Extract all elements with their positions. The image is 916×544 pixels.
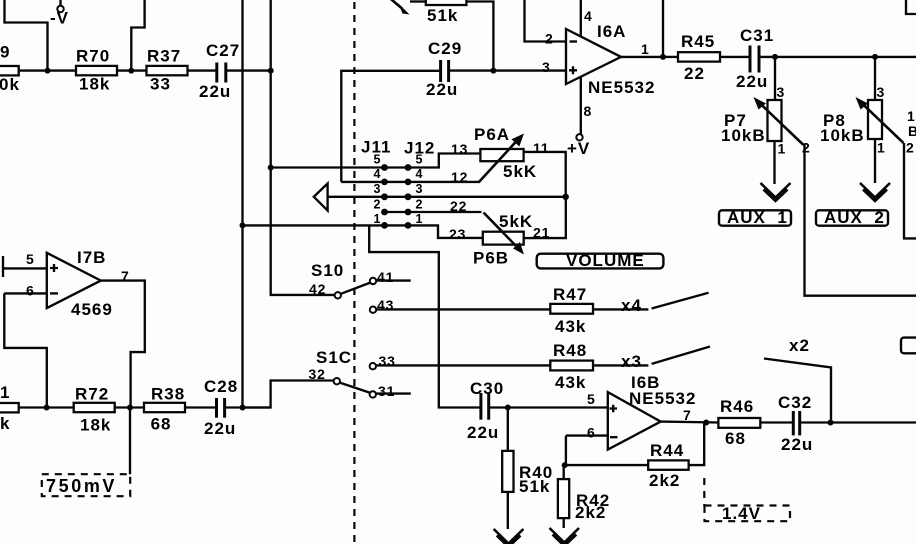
node P8 tap — [872, 54, 878, 60]
capacitor C31 22u — [736, 26, 774, 91]
wire P8 wiper drop — [904, 143, 916, 238]
node I7B feedback tap — [44, 405, 50, 411]
pin J12-2 — [405, 209, 412, 216]
op-amp I6B NE5532 — [608, 373, 697, 450]
capacitor C30 22u — [467, 379, 504, 442]
wire — [188, 69, 217, 71]
wire — [760, 421, 793, 423]
svg-text:+V: +V — [567, 139, 590, 158]
svg-text:22u: 22u — [736, 72, 768, 91]
node P7 tap — [772, 54, 778, 60]
svg-text:P6A: P6A — [474, 125, 510, 144]
wire J12-4 to P6A wiper (pin 12) — [408, 181, 479, 183]
wire feedback riser to top — [662, 0, 664, 57]
svg-text:18k: 18k — [80, 416, 111, 435]
wire C32 out to right edge — [800, 421, 916, 423]
wire — [117, 69, 147, 71]
wire branch row1 down to C30 net — [369, 225, 481, 407]
wire P8 bottom to AUX 2 — [874, 139, 876, 183]
svg-text:7: 7 — [121, 268, 130, 284]
box fragment top-right corner — [906, 0, 916, 14]
pin J11-2 — [381, 209, 388, 216]
svg-text:R48: R48 — [553, 341, 587, 360]
+V supply — [567, 134, 590, 158]
wire I7B feedback loop — [4, 293, 47, 407]
svg-text:22u: 22u — [467, 423, 499, 442]
svg-text:C27: C27 — [206, 41, 240, 60]
svg-text:C28: C28 — [204, 377, 238, 396]
resistor R44 2k2 — [648, 441, 688, 490]
arrow out R40 (cut at bottom) — [494, 529, 524, 544]
capacitor C29 22u — [426, 39, 462, 99]
measurement 1.4V — [704, 478, 790, 523]
capacitor C27 22u — [199, 41, 240, 101]
svg-text:3: 3 — [542, 59, 551, 75]
resistor R37 33 — [147, 47, 188, 94]
wire bottom rail — [19, 406, 74, 408]
arrow out P7 — [761, 183, 791, 201]
node I7B output tap — [127, 405, 133, 411]
contact 43 — [370, 307, 376, 313]
svg-text:6: 6 — [587, 425, 596, 441]
wire main out bus — [759, 56, 916, 58]
svg-text:C29: C29 — [428, 39, 462, 58]
node x2 tap — [828, 420, 834, 426]
svg-text:1: 1 — [374, 212, 381, 226]
svg-text:R46: R46 — [720, 397, 754, 416]
svg-text:3: 3 — [877, 84, 886, 100]
svg-text:2k2: 2k2 — [575, 503, 606, 522]
label VOLUME — [537, 251, 664, 270]
svg-text:5: 5 — [26, 251, 35, 267]
resistor R45 22 — [678, 32, 720, 83]
potentiometer P6A 5kK (volume) — [474, 125, 537, 183]
svg-text:43k: 43k — [555, 317, 586, 336]
svg-text:0k: 0k — [0, 75, 20, 94]
svg-text:1: 1 — [877, 140, 886, 156]
switch S1D — [309, 261, 411, 298]
svg-text:13: 13 — [451, 141, 468, 157]
wire P6A pin 11 to row3 node — [524, 152, 566, 197]
svg-text:4: 4 — [416, 167, 423, 181]
input stub left edge — [2, 256, 4, 277]
svg-text:AUX 2: AUX 2 — [824, 208, 885, 227]
pin 8 wire to +V — [580, 77, 582, 135]
arrow out R42 (cut at bottom) — [550, 528, 580, 544]
wire C29 to op-amp pin 3 — [449, 69, 566, 71]
box fragment right edge — [901, 338, 916, 354]
op-amp I7B 4569 — [47, 248, 113, 319]
svg-text:5: 5 — [416, 153, 423, 167]
potentiometer P8 10kB — [820, 57, 915, 156]
potentiometer 51k (cut at top edge) — [389, 0, 467, 25]
svg-text:22u: 22u — [204, 419, 236, 438]
switch x2 — [764, 336, 831, 423]
svg-text:C31: C31 — [740, 26, 774, 45]
svg-text:3: 3 — [777, 84, 786, 100]
svg-text:I6A: I6A — [597, 22, 626, 41]
wire row 2 — [385, 211, 482, 213]
wire — [720, 56, 750, 58]
capacitor C28 22u — [204, 377, 238, 438]
resistor R71 (partial at left edge) — [0, 383, 19, 433]
svg-text:33: 33 — [150, 75, 171, 94]
svg-text:5kK: 5kK — [499, 212, 533, 231]
svg-text:2: 2 — [374, 198, 381, 212]
svg-text:22: 22 — [450, 198, 467, 214]
wire — [225, 406, 271, 408]
wire — [593, 308, 648, 310]
svg-text:42: 42 — [309, 281, 326, 297]
wire I6B feedback — [565, 436, 567, 466]
svg-text:22: 22 — [684, 64, 705, 83]
resistor R40 51k — [502, 408, 553, 530]
pin J11-4 — [381, 179, 388, 186]
svg-text:-V: -V — [50, 9, 69, 28]
svg-text:68: 68 — [725, 429, 746, 448]
node I6A output — [660, 54, 666, 60]
pin J12-5 — [405, 164, 412, 171]
node R42/R44 — [562, 462, 568, 468]
potentiometer P6B 5kK (volume) — [473, 212, 533, 268]
svg-text:1: 1 — [416, 212, 423, 226]
svg-text:18k: 18k — [79, 75, 110, 94]
switch x4 — [621, 293, 709, 315]
svg-text:2: 2 — [906, 140, 915, 156]
svg-text:750mV: 750mV — [46, 476, 117, 496]
pin J11-5 — [381, 164, 388, 171]
svg-text:1.4V: 1.4V — [722, 504, 761, 523]
svg-text:33: 33 — [379, 353, 396, 369]
svg-text:22u: 22u — [426, 80, 458, 99]
wire feedback to R44 — [565, 464, 649, 466]
wire I6B pin 6 — [566, 434, 608, 436]
svg-text:S10: S10 — [311, 261, 344, 280]
svg-text:2: 2 — [416, 198, 423, 212]
resistor R70 18k — [76, 47, 117, 94]
svg-text:S1C: S1C — [316, 348, 352, 367]
op-amp I6A NE5532 — [566, 22, 655, 97]
wire — [593, 364, 648, 366]
svg-text:68: 68 — [151, 415, 172, 434]
svg-text:5: 5 — [587, 391, 596, 407]
svg-text:x3: x3 — [621, 352, 642, 371]
svg-text:1: 1 — [641, 41, 650, 57]
svg-text:C32: C32 — [778, 393, 812, 412]
pin J12-1 — [405, 222, 412, 229]
svg-text:9: 9 — [0, 43, 10, 62]
wire right bus — [271, 0, 335, 295]
switch S1C — [309, 348, 411, 399]
node row1 left bus — [240, 222, 246, 228]
wire R44 up to output node — [689, 423, 705, 466]
switch x3 — [621, 347, 710, 372]
wire 33 to R48 — [376, 364, 550, 366]
wire C29 input drop to J11 pin4 row — [341, 71, 440, 182]
node row3 / P6A-11 / P6B-21 — [563, 194, 569, 200]
node row5 bus — [268, 165, 274, 171]
svg-text:5kK: 5kK — [503, 162, 537, 181]
pin J12-3 — [405, 193, 412, 200]
svg-text:B: B — [908, 123, 916, 139]
wire J12-1 to P6B pin 23 — [408, 225, 483, 238]
svg-text:23: 23 — [449, 226, 466, 242]
wire 51k right end down to C29 node — [466, 2, 493, 71]
svg-text:10kB: 10kB — [721, 126, 766, 145]
svg-text:22u: 22u — [781, 435, 813, 454]
svg-text:8: 8 — [584, 103, 593, 119]
svg-text:R37: R37 — [147, 47, 181, 66]
node I6B output — [703, 420, 709, 426]
pin J11-3 — [381, 193, 388, 200]
svg-text:1: 1 — [907, 108, 916, 124]
node C29/51k junction — [490, 68, 496, 74]
wire row 1 — [243, 224, 409, 226]
wire P7 wiper drop — [805, 145, 916, 296]
svg-text:31: 31 — [378, 383, 395, 399]
wire 43 to R47 — [376, 308, 550, 310]
wire row 5 — [271, 166, 408, 168]
pin J12-4 — [405, 179, 412, 186]
svg-text:3: 3 — [374, 182, 381, 196]
pin J11-1 — [381, 222, 388, 229]
svg-text:2: 2 — [802, 140, 811, 156]
wire riser from R70/R37 node to top edge — [131, 0, 144, 71]
pin 4 wire — [580, 0, 582, 37]
wire I6B output — [661, 420, 719, 423]
node junction R69/R70 — [45, 68, 51, 74]
node R40 tap — [505, 405, 511, 411]
svg-text:2k2: 2k2 — [649, 471, 680, 490]
svg-text:VOLUME: VOLUME — [566, 251, 645, 270]
svg-text:51k: 51k — [427, 6, 458, 25]
wire I7B pin 6 — [4, 292, 47, 294]
svg-text:R38: R38 — [151, 385, 185, 404]
wire left bus — [241, 0, 243, 408]
wire C30 to I6B pin 5 — [489, 406, 608, 408]
svg-text:43k: 43k — [555, 373, 586, 392]
svg-text:21: 21 — [533, 225, 550, 241]
svg-text:x4: x4 — [621, 296, 642, 315]
svg-text:R72: R72 — [75, 385, 109, 404]
wire rail to S1C pin 32 — [243, 381, 335, 408]
node C27 to right bus — [268, 68, 274, 74]
wire — [19, 69, 76, 71]
wire — [226, 69, 271, 71]
resistor R47 43k — [550, 285, 593, 336]
wire I6A pin 2 riser — [525, 0, 567, 42]
svg-text:4: 4 — [374, 167, 381, 181]
wire P6B pin 21 to row3 node — [524, 197, 566, 238]
wire I6A output — [621, 56, 678, 58]
svg-text:R45: R45 — [681, 32, 715, 51]
resistor R42 2k2 — [558, 465, 610, 528]
svg-text:R47: R47 — [553, 285, 587, 304]
svg-text:22u: 22u — [199, 82, 231, 101]
wire — [115, 406, 144, 408]
wire — [185, 406, 216, 408]
wire I7B output — [101, 281, 145, 408]
potentiometer P7 10kB — [721, 57, 811, 157]
svg-text:x2: x2 — [789, 336, 810, 355]
svg-text:NE5532: NE5532 — [629, 389, 696, 408]
svg-text:AUX 1: AUX 1 — [727, 208, 788, 227]
resistor R38 68 — [144, 385, 185, 434]
svg-text:R44: R44 — [650, 441, 684, 460]
svg-text:4569: 4569 — [71, 300, 113, 319]
svg-text:3: 3 — [416, 182, 423, 196]
wire I7B pin 5 — [3, 267, 47, 269]
wire row 4 — [341, 181, 408, 183]
wire row 3 — [328, 196, 566, 198]
capacitor C32 22u — [778, 393, 813, 454]
svg-text:NE5532: NE5532 — [588, 78, 655, 97]
resistor R48 43k — [550, 341, 593, 392]
svg-text:10kB: 10kB — [820, 126, 865, 145]
dashed separator line — [353, 2, 355, 544]
resistor R46 68 — [718, 397, 760, 448]
svg-text:I7B: I7B — [77, 248, 106, 267]
arrow out P8 — [860, 183, 890, 201]
wire P7 bottom to AUX 1 — [773, 141, 775, 184]
svg-text:2: 2 — [545, 31, 554, 47]
svg-text:51k: 51k — [519, 477, 550, 496]
svg-text:4: 4 — [584, 8, 593, 24]
label AUX 2 — [816, 208, 888, 227]
svg-text:C30: C30 — [470, 379, 504, 398]
svg-text:k: k — [0, 414, 10, 433]
node left bus / rail — [240, 405, 246, 411]
svg-text:41: 41 — [377, 269, 394, 285]
arrow into row 3 — [314, 184, 328, 211]
measurement 750mV — [42, 408, 130, 497]
svg-text:1: 1 — [0, 383, 10, 402]
svg-text:6: 6 — [26, 283, 35, 299]
svg-text:R70: R70 — [76, 47, 110, 66]
-V supply — [50, 0, 69, 28]
resistor R72 18k — [74, 385, 115, 435]
svg-text:5: 5 — [374, 153, 381, 167]
svg-text:P6B: P6B — [473, 249, 509, 268]
node junction R70/R37 — [128, 68, 134, 74]
svg-text:43: 43 — [377, 297, 394, 313]
svg-text:1: 1 — [778, 141, 787, 157]
svg-text:12: 12 — [451, 169, 468, 185]
resistor R69 (partial at left edge) value 10k — [0, 43, 20, 95]
svg-text:7: 7 — [683, 407, 692, 423]
svg-text:11: 11 — [533, 140, 549, 156]
label AUX 1 — [719, 208, 791, 227]
wire J12-5 to P6A top (pin 13) — [408, 154, 480, 168]
wire top-left corner bend — [5, 0, 48, 71]
